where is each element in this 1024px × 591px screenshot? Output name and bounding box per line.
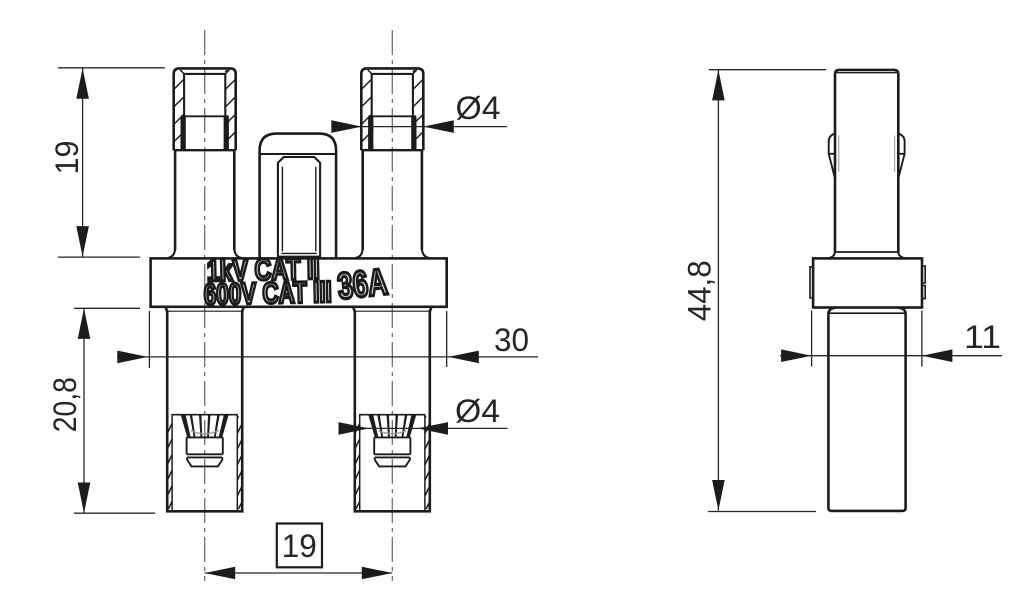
pin P2 wall hatch [361,70,423,142]
dimension 20,8: dimension line [83,308,85,513]
contact tip L2 [375,457,410,466]
side view upper tube [835,70,898,252]
dimension Ø4 top: value text [456,90,501,126]
dimension 44,8: value text [682,260,718,321]
svg-text:36A: 36A [336,261,390,307]
contact crown L1 [181,415,229,457]
dimension 19 top: arrowheads [76,68,89,256]
dimension 19 bottom: arrowheads [205,567,393,580]
dimension Ø4 bottom: leader line [341,427,508,429]
dimension 44,8: extension lines [708,70,826,512]
svg-text:30: 30 [494,322,529,358]
svg-text:600V CAT III: 600V CAT III [203,276,332,312]
dimension 11: extension lines [812,311,922,367]
svg-text:Ø4: Ø4 [456,90,501,126]
center key tab [260,134,337,258]
leg L1 outline [166,307,244,511]
housing body front [151,258,447,306]
dimension 44,8: arrowheads [712,70,725,511]
dimension 20,8: arrowheads [78,308,91,513]
centerline pin 1 [204,30,206,581]
dimension Ø4 top: arrowheads [331,120,454,133]
leg L2 wall hatch [355,416,430,509]
pin P1 shaft [175,150,234,250]
dimension 19 bottom: value text [282,528,317,564]
dimension 11: value text [964,319,1001,355]
pin P1 wall hatch [174,70,236,142]
side view latch barb right [895,134,905,177]
pin P1 base flare [168,250,242,259]
svg-text:20,8: 20,8 [47,377,83,432]
dimension Ø4 bottom: arrowheads [339,422,449,435]
pin P2 base flare [356,250,430,259]
leg L2 outline [353,307,431,511]
side view tube-to-body flare [826,252,907,258]
dimension 19 top: dimension line [82,68,84,256]
dimension 19 bottom: frame box [277,524,322,568]
dimension 20,8: value text [47,377,83,432]
centerline pin 2 [391,30,393,581]
dimension 19 top: value text [49,141,85,175]
pin P1 outer tube [174,68,236,150]
pin P2 outer tube [361,68,423,150]
marking text 36A [336,261,390,307]
svg-text:44,8: 44,8 [682,260,718,321]
svg-text:11: 11 [964,319,1001,355]
side view latch barb left [829,134,839,177]
contact crown L2 [369,415,417,457]
side view body [813,258,922,307]
svg-text:Ø4: Ø4 [455,393,500,429]
dimension 11: dimension line [780,355,1002,357]
leg L1 wall hatch [167,416,242,509]
svg-text:19: 19 [49,141,85,175]
svg-text:19: 19 [282,528,317,564]
pin P2 contact sleeve [361,116,423,150]
dimension 11: arrowheads [781,349,952,362]
pin P1 contact sleeve [174,116,236,150]
side view body tab right [922,266,925,299]
dimension Ø4 bottom: value text [455,393,500,429]
side view lower leg [828,308,905,511]
dimension 44,8: dimension line [717,70,719,511]
contact tip L1 [187,457,222,466]
dimension 30: dimension line [117,356,538,358]
dimension 19 top: extension lines [58,68,165,257]
dimension 19 bottom: dimension line [205,572,393,574]
side view body tab left [810,267,813,298]
dimension 30: arrowheads [117,351,479,364]
marking text 1kV CAT II [206,253,320,288]
dimension 20,8: extension lines [74,308,155,513]
dimension 30: value text [494,322,529,358]
dimension 30: extension lines [149,311,446,368]
dimension Ø4 top: leader line [334,126,507,128]
pin P2 shaft [363,150,422,250]
marking text 600V CAT III [203,276,332,312]
